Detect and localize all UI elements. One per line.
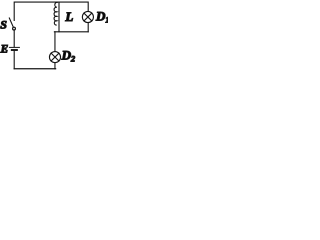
switch S pivot contact [13,27,16,30]
lamp D1 [82,11,93,22]
inductor L coil windings [54,2,57,25]
wire: middle rail (coil bottom / D1 bottom junction) [54,31,88,33]
svg-text:D1: D1 [95,9,108,25]
wire: lamp D1 to middle rail [87,23,89,32]
wire: battery negative to bottom rail [13,51,15,69]
switch S blade [9,18,13,27]
svg-text:L: L [64,9,73,24]
lamp D2 [49,52,60,63]
battery E positive plate [9,46,19,48]
wire: inductor L right-side lead down to middle rail [58,2,60,32]
wire: switch to battery positive [13,30,15,47]
svg-text:E: E [0,43,9,55]
svg-text:S: S [0,17,7,31]
svg-text:D2: D2 [61,47,75,63]
wire: bottom rail [14,68,55,70]
wire: top rail (from left branch corner to D1 branch corner) [14,2,88,20]
wire: middle rail down to lamp D2 [54,32,56,52]
battery E negative plate [12,49,17,51]
wire: lamp D2 to bottom rail [54,63,56,69]
